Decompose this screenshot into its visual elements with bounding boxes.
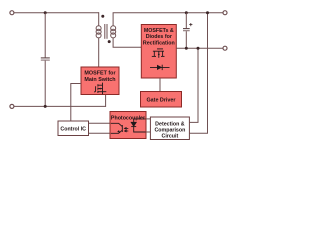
transformer T1 polarity dot (secondary) <box>108 40 111 43</box>
junction: bottom rail / C1 <box>44 105 47 108</box>
output terminal J4 <box>223 46 227 50</box>
block: Control IC <box>58 121 89 136</box>
wire gate lead Q1 <box>71 84 81 122</box>
capacitor C2 <box>183 29 190 31</box>
block: Detection & Comparison Circuit <box>150 117 189 140</box>
wire primary top lead <box>98 12 100 26</box>
wire photocoupler to detection (lower) <box>146 131 150 133</box>
transformer T1 primary winding <box>96 26 101 38</box>
svg-text:MOSFET for: MOSFET for <box>84 71 116 77</box>
wire detection sense (to output plus rail) <box>189 13 207 134</box>
capacitor C2 lead top <box>185 13 187 29</box>
svg-text:Photocoupler: Photocoupler <box>111 115 145 121</box>
junction: output minus rail / C2 <box>185 47 188 50</box>
photocoupler PC1 LED <box>131 119 145 132</box>
junction: output minus rail / sense wire <box>197 47 200 50</box>
wire detection sense (to output minus rail) <box>189 48 198 122</box>
capacitor C2 lead bottom <box>185 31 187 48</box>
svg-text:Rectification: Rectification <box>143 41 175 47</box>
transformer T1 core <box>105 24 107 39</box>
svg-text:Control IC: Control IC <box>60 126 86 132</box>
wire primary bottom lead to Q1 drain <box>98 38 100 67</box>
svg-text:Circuit: Circuit <box>162 133 179 139</box>
capacitor C1 <box>41 58 50 60</box>
svg-text:Gate Driver: Gate Driver <box>146 98 176 104</box>
transformer T1 secondary winding <box>111 26 116 38</box>
svg-text:Main Switch: Main Switch <box>84 77 115 83</box>
capacitor C1 lead top <box>44 13 46 58</box>
photocoupler PC1 light arrows <box>125 127 129 132</box>
wire main switch source lead <box>105 95 107 107</box>
block: MOSFET for Main Switch <box>81 67 119 95</box>
wire rectifier to gate driver <box>159 78 161 92</box>
wire secondary top lead <box>113 13 223 26</box>
diode D1 (rectification diode symbol) <box>150 65 170 70</box>
wire top input rail <box>14 12 99 14</box>
wire Control IC to photocoupler (lower) <box>89 132 111 134</box>
output terminal J3 <box>223 11 227 15</box>
block: Gate Driver <box>141 92 182 108</box>
transistor Q1 (main switch MOSFET symbol) <box>94 83 106 95</box>
label: C2 polarity plus <box>189 23 192 26</box>
svg-text:Diodes for: Diodes for <box>146 34 172 40</box>
block: MOSFETs & Diodes for Rectification <box>141 25 176 79</box>
transistor Q2 (rectification MOSFET symbol) <box>152 49 165 58</box>
junction: input rail / C1 <box>44 11 47 14</box>
transformer T1 polarity dot (primary) <box>101 15 104 18</box>
svg-text:MOSFETs &: MOSFETs & <box>144 28 174 34</box>
wire rectifier output to minus rail <box>176 47 223 49</box>
wire bottom input rail <box>14 105 106 107</box>
junction: output plus rail / sense wire <box>206 11 209 14</box>
junction: output plus rail / C2 <box>185 11 188 14</box>
wire photocoupler to detection (upper) <box>146 118 150 120</box>
input terminal J1 <box>10 11 14 15</box>
block: Photocoupler PC1 <box>110 112 146 139</box>
wire Control IC to photocoupler (upper) <box>89 122 111 124</box>
photocoupler PC1 phototransistor <box>111 123 123 133</box>
wire secondary bottom lead to rectifier <box>113 38 141 47</box>
capacitor C1 lead bottom <box>44 61 46 107</box>
input terminal J2 <box>10 104 14 108</box>
